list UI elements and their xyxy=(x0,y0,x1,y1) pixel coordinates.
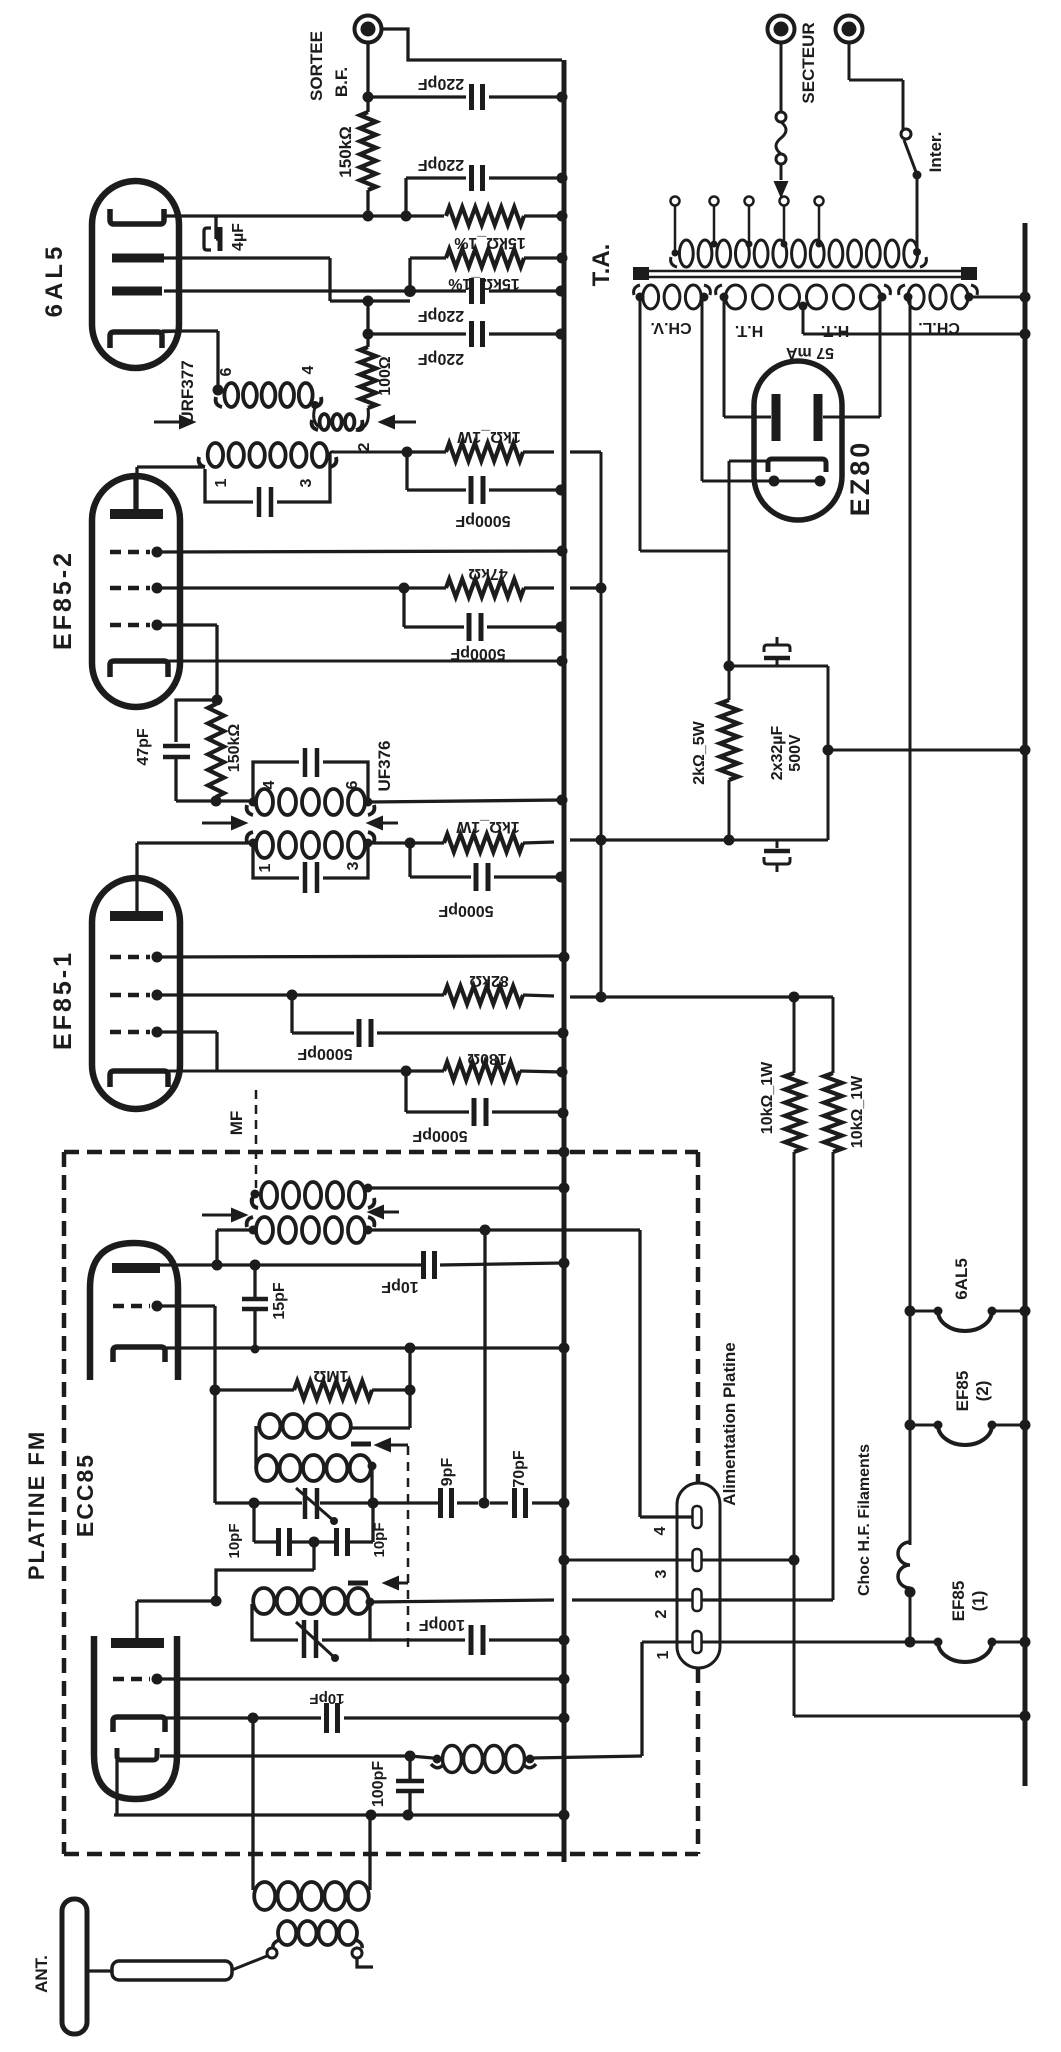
row 220pF #4 to bus xyxy=(363,329,374,340)
svg-text:EF85: EF85 xyxy=(953,1371,972,1412)
row diode anode 2 to bus xyxy=(164,289,466,292)
tuning arrow right xyxy=(390,421,416,424)
svg-text:10pF: 10pF xyxy=(309,1690,344,1707)
svg-text:10pF: 10pF xyxy=(371,1522,388,1557)
tap 2 xyxy=(710,197,719,206)
svg-text:3: 3 xyxy=(345,861,362,870)
terminal SECTEUR left xyxy=(768,16,795,43)
svg-text:57 mA: 57 mA xyxy=(786,344,834,361)
ground row platine xyxy=(114,1813,562,1816)
svg-text:4: 4 xyxy=(300,365,317,374)
wire screen hop to HT line xyxy=(570,586,601,589)
svg-text:EF85: EF85 xyxy=(949,1581,968,1622)
row diode anode 1 xyxy=(164,256,330,259)
tube EF85-1 envelope xyxy=(92,878,180,1109)
svg-text:6AL5: 6AL5 xyxy=(952,1258,971,1300)
terminal SECTEUR right xyxy=(836,16,863,43)
tuning arrow right UF376 xyxy=(378,822,398,825)
connector Alimentation Platine xyxy=(677,1483,720,1668)
EF85-2 grid1 dashes xyxy=(110,550,150,555)
svg-text:100pF: 100pF xyxy=(419,1616,465,1633)
svg-text:EZ80: EZ80 xyxy=(845,440,875,517)
tap 5 xyxy=(815,197,824,206)
capacitor UF376 1-3 xyxy=(303,862,308,893)
svg-text:100pF: 100pF xyxy=(370,1761,387,1807)
svg-text:47kΩ: 47kΩ xyxy=(468,565,508,582)
row anode to bus xyxy=(160,1263,421,1266)
wire to feedback coil xyxy=(408,1348,411,1428)
svg-text:6: 6 xyxy=(218,367,235,376)
svg-text:4: 4 xyxy=(652,1526,669,1535)
svg-text:220pF: 220pF xyxy=(418,350,464,367)
EF85-1 cathode xyxy=(110,1071,168,1087)
row g1 to bus xyxy=(157,956,563,957)
resistor 100 ohm xyxy=(360,347,376,408)
IFT URF377 secondary coil 6-4 xyxy=(224,383,238,407)
wire pin3 to 1k xyxy=(368,841,410,844)
gang arrow lower xyxy=(394,1582,408,1585)
svg-text:2: 2 xyxy=(653,1609,670,1618)
svg-text:100Ω: 100Ω xyxy=(377,356,394,396)
PLATINE FM dashed border top xyxy=(64,1150,698,1155)
wire 220pF row1 xyxy=(368,95,466,98)
wire grid to 1M xyxy=(157,1304,215,1307)
capacitor 220pF #2 xyxy=(469,165,474,191)
capacitor 10pF input xyxy=(324,1703,329,1733)
wire diode2 to pin 6 xyxy=(162,329,218,332)
EF85-1 anode xyxy=(110,911,163,921)
wire terminal down to 150k xyxy=(366,43,369,112)
gang arrow upper xyxy=(386,1444,408,1447)
resistor 1k 1W plate feed EF85-1 xyxy=(410,841,444,844)
tap 4 xyxy=(780,197,789,206)
row g1 to bus xyxy=(157,551,561,552)
svg-text:220pF: 220pF xyxy=(418,75,464,92)
UF376 bottom capacitor box xyxy=(253,841,299,878)
filament loop EF85 2 xyxy=(905,1420,916,1431)
svg-text:EF85-2: EF85-2 xyxy=(49,550,77,650)
tube ECC85 lower envelope xyxy=(94,1636,177,1799)
fuse mains xyxy=(780,43,783,112)
EF85-1 grid3 dashes xyxy=(110,1030,150,1035)
wire pin3 row to 1k xyxy=(330,452,407,455)
resistor 180 ohm cathode xyxy=(406,1069,444,1072)
wire CHV right to EZ80 heater xyxy=(701,297,704,481)
PLATINE FM dashed border bottom xyxy=(64,1852,698,1857)
divider 10pF 10pF xyxy=(252,1503,255,1542)
svg-text:47pF: 47pF xyxy=(135,728,152,766)
arrow mains tap xyxy=(775,182,787,196)
EF85-2 grid2 dashes xyxy=(110,586,150,591)
wire g3 to cathode xyxy=(157,1030,217,1033)
capacitor 47pF xyxy=(176,700,217,742)
wire feeder xyxy=(232,1956,267,1970)
svg-text:EF85-1: EF85-1 xyxy=(49,950,77,1050)
PLATINE FM dashed border right lower xyxy=(696,1668,701,1854)
switch Inter xyxy=(901,129,911,139)
capacitor 9pF xyxy=(438,1488,443,1518)
svg-text:SECTEUR: SECTEUR xyxy=(799,22,818,103)
MF transformer upper coil xyxy=(261,1182,277,1208)
capacitor UF376 4-6 xyxy=(303,748,308,777)
filament line xyxy=(909,297,912,1545)
svg-text:Inter.: Inter. xyxy=(926,132,945,173)
secondary CH.V xyxy=(643,285,659,309)
capacitor 32uF #2 xyxy=(776,840,779,848)
bleeder line 10k #1 xyxy=(793,997,796,1073)
antenna secondary coil xyxy=(278,1921,296,1945)
svg-text:150kΩ: 150kΩ xyxy=(226,724,243,773)
IFT UF376 secondary 4-6 xyxy=(256,789,273,815)
secondary HT xyxy=(726,285,746,309)
trimmer arrow osc1 xyxy=(296,1488,334,1521)
svg-text:220pF: 220pF xyxy=(418,307,464,324)
wire MF lower left to anode row xyxy=(217,1228,253,1231)
svg-text:3: 3 xyxy=(298,478,315,487)
oscillator coil lower xyxy=(253,1588,274,1614)
wire 220pF row2 xyxy=(406,176,466,179)
wire to tank bottom xyxy=(216,1570,314,1601)
filament loop EF85 1 xyxy=(905,1637,916,1648)
resistor 150k grid leak xyxy=(208,704,224,797)
capacitor 220pF #1 xyxy=(469,84,474,110)
svg-text:5000pF: 5000pF xyxy=(455,512,510,529)
row g2 to 82k xyxy=(157,993,292,996)
oscillator feedback coil xyxy=(259,1414,280,1438)
IFT URF377 primary coil 1-3 xyxy=(208,443,223,467)
EF85-2 cathode xyxy=(110,661,168,677)
wire HT to filter xyxy=(601,838,729,841)
row 100pF to bus xyxy=(370,1638,465,1641)
capacitor 4uF xyxy=(214,216,217,239)
row g2 to 47k xyxy=(157,586,404,589)
wire anode to osc coil xyxy=(135,1601,138,1638)
coupling coil to pin 2 xyxy=(320,414,329,430)
pin 4 xyxy=(693,1506,702,1528)
terminal SORTEE B.F. xyxy=(355,16,382,43)
wire centre tap to rail xyxy=(803,333,1025,336)
capacitor 15pF xyxy=(253,1265,256,1297)
svg-text:6AL5: 6AL5 xyxy=(41,243,68,318)
ECC85a anode xyxy=(112,1263,160,1273)
capacitor 5000pF #5 xyxy=(408,843,411,877)
PLATINE FM dashed border left xyxy=(62,1152,67,1854)
wire HT right to plate xyxy=(823,416,880,419)
row diode cathode 1 xyxy=(163,214,444,217)
tube EF85-2 envelope xyxy=(92,476,180,707)
svg-text:6: 6 xyxy=(344,780,361,789)
wire hop to HT line xyxy=(570,838,601,841)
svg-text:10pF: 10pF xyxy=(226,1523,243,1558)
tuning arrow left xyxy=(154,421,184,424)
secondary CH.L xyxy=(908,285,924,309)
capacitor URF377 1-3 xyxy=(257,487,262,517)
filter link vertical xyxy=(827,666,830,840)
svg-text:10pF: 10pF xyxy=(381,1278,419,1295)
svg-text:4µF: 4µF xyxy=(230,223,247,251)
IFT UF376 primary 1-3 xyxy=(256,832,273,858)
svg-text:82kΩ: 82kΩ xyxy=(469,972,509,989)
svg-text:150kΩ: 150kΩ xyxy=(336,126,355,177)
pin 1 xyxy=(693,1631,702,1653)
resistor 2k 5W xyxy=(728,666,731,700)
UF376 top capacitor box xyxy=(253,762,299,804)
wire HT feed hop over bus xyxy=(570,450,601,453)
resistor 82k screen xyxy=(444,986,523,1004)
EZ80 cathode xyxy=(768,459,826,472)
wire CHV left to heater row xyxy=(639,297,642,551)
resistor 47k screen xyxy=(404,586,446,589)
6AL5 anode 2 xyxy=(112,287,162,296)
svg-text:2kΩ_5W: 2kΩ_5W xyxy=(691,720,708,784)
PLATINE FM dashed border right upper xyxy=(696,1152,701,1484)
node grid leak xyxy=(212,695,223,706)
ECC85a grid dashes xyxy=(113,1304,150,1309)
wire HT to bleeders xyxy=(601,995,833,998)
capacitor 70pF xyxy=(490,1501,508,1504)
EZ80 plate 2 xyxy=(814,394,823,441)
pin 3 xyxy=(693,1549,702,1571)
svg-text:1: 1 xyxy=(257,863,274,872)
resistor 10k 1W #2 xyxy=(824,1073,842,1152)
tap 1 xyxy=(671,197,680,206)
wire screen hop to HT line xyxy=(570,995,601,998)
wire dipole to feeder xyxy=(87,1969,112,1972)
antenna dipole bar xyxy=(62,1899,87,2034)
row MF lower to connector pin 4 xyxy=(368,1228,485,1231)
wire HT left down xyxy=(723,297,726,417)
node tank right xyxy=(368,1462,377,1471)
svg-text:PLATINE FM: PLATINE FM xyxy=(24,1430,49,1580)
node 150k top xyxy=(363,92,374,103)
wire heater to pin1 xyxy=(640,1642,643,1756)
capacitor 10pF xyxy=(421,1251,426,1279)
T.A. primary winding xyxy=(679,240,693,267)
heater choke row xyxy=(160,1754,410,1757)
filament loop 6AL5 xyxy=(905,1306,916,1317)
tube ECC85 upper envelope xyxy=(90,1243,178,1380)
svg-text:ANT.: ANT. xyxy=(32,1955,51,1993)
tube 6AL5 envelope xyxy=(92,181,179,368)
dot bus row1 xyxy=(557,92,568,103)
svg-text:2: 2 xyxy=(356,442,373,451)
svg-text:5000pF: 5000pF xyxy=(438,902,493,919)
svg-text:(2): (2) xyxy=(973,1381,992,1402)
svg-text:T.A.: T.A. xyxy=(588,244,615,287)
svg-text:CH.V.: CH.V. xyxy=(650,319,691,336)
svg-text:1kΩ_1W: 1kΩ_1W xyxy=(455,818,519,835)
resistor 10k 1W #1 xyxy=(785,1073,803,1152)
svg-text:1kΩ_1W: 1kΩ_1W xyxy=(456,428,520,445)
variable capacitor osc1 xyxy=(303,1488,308,1519)
wire cathode to 2k xyxy=(729,460,768,463)
HT centre tap xyxy=(799,302,808,311)
tube EZ80 envelope xyxy=(754,361,842,520)
6AL5 anode 1 xyxy=(112,254,164,263)
resistor 15k 1% lower xyxy=(410,256,446,259)
row pin6 to bus xyxy=(368,800,561,802)
ECC85a cathode xyxy=(113,1347,165,1362)
EZ80 plate 1 xyxy=(772,394,781,441)
capacitor 5000pF #4 xyxy=(404,1071,407,1112)
EF85-2 anode xyxy=(110,509,163,519)
svg-text:H.T.: H.T. xyxy=(735,322,763,339)
svg-text:180Ω: 180Ω xyxy=(467,1050,507,1067)
wire antenna primary to ground row xyxy=(368,1815,371,1890)
svg-text:B.F.: B.F. xyxy=(332,67,351,97)
row pin 3 ground xyxy=(559,1555,570,1566)
tuning arrow left UF376 xyxy=(202,822,236,825)
wire primary to EF85-2 anode xyxy=(137,465,205,468)
oscillator tank coil xyxy=(256,1455,277,1481)
capacitor 100pF heater bypass xyxy=(408,1756,411,1779)
ECC85b anode xyxy=(111,1638,164,1648)
resistor 150k detector load xyxy=(360,112,376,190)
MF transformer lower coil xyxy=(256,1217,273,1243)
svg-text:70pF: 70pF xyxy=(511,1450,528,1488)
svg-text:SORTEE: SORTEE xyxy=(307,31,326,101)
MF arrows xyxy=(202,1214,236,1217)
wire terminal to ground bus xyxy=(381,29,562,60)
svg-text:1: 1 xyxy=(655,1650,672,1659)
row tank bottom xyxy=(215,1501,302,1504)
wire filter to rail xyxy=(828,749,1025,752)
transformer T.A. core xyxy=(636,270,977,273)
row padder 9pF 70pF xyxy=(373,1501,439,1504)
ECC85b heater xyxy=(117,1748,157,1760)
svg-text:15pF: 15pF xyxy=(271,1282,288,1320)
row grid to bus xyxy=(157,1677,562,1680)
wire g3 to cathode xyxy=(157,623,217,626)
capacitor 5000pF #3 xyxy=(290,995,293,1033)
URF377 primary tuning capacitor box xyxy=(205,469,253,502)
row pin 1 heater xyxy=(642,1641,692,1644)
svg-text:CH.L.: CH.L. xyxy=(918,319,960,336)
vertical to padder caps xyxy=(483,1230,486,1503)
variable capacitor osc2 xyxy=(302,1620,307,1658)
svg-text:3: 3 xyxy=(653,1569,670,1578)
wire CHL right to rail xyxy=(969,296,1025,299)
node pin 6 xyxy=(213,385,224,396)
pin 2 xyxy=(693,1589,702,1611)
svg-text:5000pF: 5000pF xyxy=(450,645,505,662)
svg-text:500V: 500V xyxy=(787,734,804,772)
svg-text:Alimentation Platine: Alimentation Platine xyxy=(720,1342,739,1505)
switch Inter wire xyxy=(848,43,851,80)
ganged tuning dashed link xyxy=(407,1446,410,1650)
EF85-1 grid2 dashes xyxy=(110,993,150,998)
capacitor 5000pF #1 xyxy=(405,452,408,490)
row osc to connector pin 2 xyxy=(370,1600,554,1602)
svg-text:5000pF: 5000pF xyxy=(412,1127,467,1144)
svg-text:5000pF: 5000pF xyxy=(297,1045,352,1062)
row cathode to bus xyxy=(163,1346,563,1349)
svg-text:1MΩ: 1MΩ xyxy=(313,1367,348,1384)
antenna terminal right xyxy=(356,1940,362,1948)
wire HT left to plate xyxy=(724,416,771,419)
wire 100R to pin2 xyxy=(362,408,368,428)
svg-text:10kΩ_1W: 10kΩ_1W xyxy=(849,1075,866,1148)
heater RF choke coil xyxy=(443,1746,462,1773)
wire pin1 to EF85-1 anode xyxy=(137,841,253,844)
svg-text:MF: MF xyxy=(227,1111,246,1136)
svg-text:UF376: UF376 xyxy=(375,740,394,791)
EF85-1 grid1 dashes xyxy=(110,955,150,960)
antenna primary coil xyxy=(254,1882,275,1910)
svg-text:H.T.: H.T. xyxy=(821,322,849,339)
capacitor 5000pF #2 screen bypass xyxy=(402,588,405,627)
feeder bar xyxy=(112,1961,232,1980)
capacitor 32uF #1 xyxy=(776,660,779,666)
ground bus xyxy=(562,60,567,1862)
resistor 1k 1W plate feed EF85-2 xyxy=(407,450,446,453)
HT line down xyxy=(600,452,603,997)
dropper line 10k #2 xyxy=(832,997,835,1073)
tap 3 xyxy=(745,197,754,206)
wire coil link xyxy=(314,407,319,427)
svg-text:4: 4 xyxy=(261,780,278,789)
svg-text:220pF: 220pF xyxy=(418,156,464,173)
svg-text:URF377: URF377 xyxy=(178,360,197,423)
resistor 1M grid leak xyxy=(215,1388,294,1391)
svg-text:1: 1 xyxy=(213,478,230,487)
row MF upper to bus xyxy=(368,1186,563,1189)
wire bleeder to rail xyxy=(794,1715,1025,1718)
ECC85b cathode xyxy=(113,1717,165,1732)
ECC85b grid dashes xyxy=(113,1677,150,1682)
6AL5 cathode 1 xyxy=(110,209,164,224)
svg-text:ECC85: ECC85 xyxy=(72,1453,98,1537)
row cathode via 10pF to bus xyxy=(163,1716,321,1719)
6AL5 cathode 2 xyxy=(110,332,162,348)
EZ80 heater xyxy=(769,476,780,487)
svg-text:(1): (1) xyxy=(969,1591,988,1612)
MF link dashed xyxy=(255,1090,258,1188)
link row xyxy=(330,299,410,302)
svg-text:9pF: 9pF xyxy=(439,1458,456,1487)
resistor 15k 1% upper xyxy=(446,207,524,225)
svg-text:10kΩ_1W: 10kΩ_1W xyxy=(759,1061,776,1134)
choke Choc HF xyxy=(898,1542,910,1588)
HT rail right xyxy=(1023,223,1028,1786)
trimmer arrow osc2 xyxy=(296,1622,335,1658)
antenna terminal left xyxy=(273,1940,279,1948)
EF85-2 grid3 dashes xyxy=(110,623,150,628)
osc tank box lower xyxy=(252,1604,298,1640)
wire cathode node xyxy=(729,665,828,668)
wire cap2 to link xyxy=(729,839,828,842)
wire HT right down xyxy=(879,297,882,417)
svg-text:Choc H.F. Filaments: Choc H.F. Filaments xyxy=(856,1444,873,1596)
wire heater to ground row xyxy=(115,1760,118,1815)
svg-text:2x32µF: 2x32µF xyxy=(769,725,786,780)
